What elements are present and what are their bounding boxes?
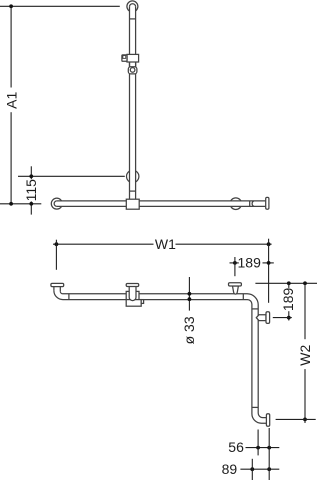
svg-text:W1: W1 [155,236,176,252]
middle clamp [126,291,139,299]
right wall-A bracket stem [233,286,239,294]
left bend inner edge / bar top edge / corner outer edge [60,291,266,417]
dimension W2 line [304,283,306,339]
extension line 89 [251,459,253,480]
vertical tube joint tick upper [252,308,258,310]
svg-text:A1: A1 [3,92,19,109]
middle block below bar [126,300,141,307]
bar joint tick left [68,294,70,300]
left end cap circle of horizontal bar [51,198,62,209]
svg-text:115: 115 [23,179,39,202]
dimension W1 line [53,243,154,245]
wire rail left line [129,7,131,199]
dimension dia33 line [188,277,190,311]
bottom wall plate [266,414,269,427]
bar sleeve arc [252,201,254,207]
rail top cap arc [130,4,136,7]
wall support circle (lower rail support) [127,170,139,182]
junction box [126,199,139,209]
extension line 115 top [18,175,125,177]
svg-text:189: 189 [238,255,262,271]
extension line 189 right bottom [273,317,292,319]
dimension 56 line [246,447,280,449]
bar sleeve tick [249,201,251,207]
wire bar bottom line [57,205,265,207]
dimension 189 right line [288,283,290,288]
left wall plate [51,283,64,286]
right wall-A plate [229,283,242,286]
holder neck [129,62,131,67]
right wall support circle of horizontal bar [230,198,242,210]
svg-text:89: 89 [222,461,238,477]
svg-text:W2: W2 [297,344,313,365]
left stem lines [53,287,55,291]
shower holder cup [128,67,137,74]
slider main block [127,54,139,62]
svg-text:56: 56 [228,439,244,455]
extension line W1 left [55,240,57,270]
bar joint tick right (before corner) [242,294,244,300]
rail joint tick upper [130,18,136,20]
extension line W2 bottom [276,418,316,420]
middle wall plate [126,284,139,287]
slider knob window [123,56,126,59]
dimension 89 line [240,468,279,470]
wire bar top line [57,200,265,202]
bar left cap arc [54,201,57,207]
svg-text:189: 189 [280,288,296,312]
extension line right corner [268,239,270,303]
holder circle [130,68,135,73]
dimension A1 line [10,6,12,87]
bar interior mask [54,201,265,207]
wall-B bracket stem [256,315,266,321]
dimension 115 line [30,166,32,179]
vertical tube joint tick lower [252,406,258,408]
middle block tab [141,300,143,304]
dimension 189 top line [230,262,239,264]
middle stem tube with U bottom [129,287,136,301]
rail joint tick lower [130,190,136,192]
wire rail right line [135,7,137,199]
left bend outer edge [54,291,267,424]
extension line top (rail top center) [0,5,120,7]
slider knob [122,55,127,61]
svg-text:ø 33: ø 33 [181,316,197,344]
right wall flange [266,197,269,209]
wall-B plate [266,312,270,324]
extension line bottom (bar center) [0,203,41,205]
extension line 56 [257,430,259,456]
top mount circle [127,1,138,12]
extension line wall-B [268,428,270,480]
extension line wall-A level [255,282,317,284]
extension tick 189 left [234,257,236,276]
rail interior mask [130,4,136,200]
